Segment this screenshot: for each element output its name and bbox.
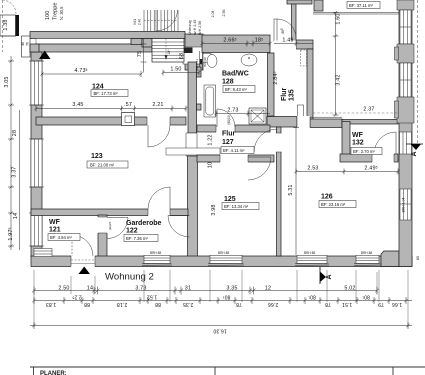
right wall pillar 1	[397, 0, 414, 10]
right window 1	[400, 10, 411, 44]
dim 1.49	[274, 38, 313, 47]
bottom right corner block	[381, 251, 399, 267]
entrance door opening	[71, 256, 95, 268]
svg-text:78: 78	[325, 301, 331, 307]
section marker A bottom	[320, 267, 333, 284]
svg-text:2.08: 2.08	[211, 11, 215, 18]
svg-text:3.05: 3.05	[4, 76, 10, 87]
wall between 124 and 123	[36, 117, 186, 125]
svg-text:1.60: 1.60	[336, 13, 342, 24]
title block top line	[30, 366, 425, 368]
svg-text:2.18: 2.18	[117, 301, 128, 307]
WC toilet	[203, 54, 217, 68]
svg-text:BRH 88: BRH 88	[361, 251, 372, 255]
passage opening 123 to Flur	[186, 133, 198, 156]
svg-text:BF: 21.00 m²: BF: 21.00 m²	[90, 162, 115, 167]
svg-text:BF: 4.94 m²: BF: 4.94 m²	[50, 235, 72, 240]
stairwell west wall	[22, 36, 31, 57]
svg-text:1.50: 1.50	[170, 67, 181, 73]
svg-text:3.73: 3.73	[135, 286, 146, 292]
bottom window under 122	[142, 255, 172, 266]
chimney stub on wall	[122, 113, 135, 126]
svg-text:2.53: 2.53	[307, 166, 318, 172]
door arc 121 to 122	[107, 218, 128, 239]
window left 124	[29, 61, 44, 105]
door opening WF132	[372, 154, 394, 163]
svg-text:Flur: Flur	[222, 131, 235, 138]
svg-text:3.42: 3.42	[336, 74, 342, 85]
dim 1.50 stair	[161, 67, 200, 76]
dim 4.73 room 124	[40, 68, 142, 77]
entry step marker top-left triangle	[39, 51, 51, 60]
room 122 label	[124, 220, 162, 242]
wall stub right of corridor door	[296, 40, 313, 49]
washbasin	[241, 54, 257, 66]
dim 1.22 vertical	[208, 134, 214, 145]
svg-text:BF: 13.34 m²: BF: 13.34 m²	[224, 204, 249, 209]
stair lower flight enclosure	[152, 39, 184, 63]
svg-text:.57: .57	[124, 102, 132, 108]
svg-text:BRH 1.04: BRH 1.04	[402, 198, 406, 213]
svg-text:1.83: 1.83	[46, 301, 57, 307]
wall chunk top right	[314, 0, 323, 11]
svg-text:1.52: 1.52	[147, 294, 158, 300]
room 37.11 label	[347, 2, 380, 9]
dim texts row2 below (rotated 180)	[46, 301, 403, 307]
door arc Flur to Bad/WC	[217, 109, 235, 127]
right exterior wall	[399, 0, 412, 267]
room 135 label	[281, 88, 296, 101]
svg-text:78: 78	[236, 301, 242, 307]
svg-text:123: 123	[91, 153, 103, 160]
door opening 123-122	[148, 209, 170, 217]
bottom window under 126 right	[354, 255, 381, 266]
room 125 label	[222, 196, 259, 210]
left dim line outer	[8, 56, 14, 250]
room 127 label	[221, 131, 254, 154]
wall between 122 and 125	[188, 156, 198, 257]
svg-text:WF: WF	[352, 132, 364, 139]
room 128 label	[222, 71, 255, 93]
dim 68 vertical stair door	[179, 53, 185, 59]
wall between 124-123 and Flur127	[188, 62, 197, 133]
corridor east partition lines	[298, 105, 304, 120]
svg-text:2.37: 2.37	[363, 107, 374, 113]
stair label 100 Treppe	[45, 2, 64, 20]
svg-text:1.49: 1.49	[282, 38, 293, 44]
svg-text:BrH 2,56: BrH 2,56	[198, 21, 202, 35]
window left 123	[29, 139, 44, 187]
corridor 135 east wall	[307, 49, 313, 120]
svg-text:BF: 7.36 m²: BF: 7.36 m²	[126, 236, 148, 241]
svg-text:3.45: 3.45	[72, 102, 83, 108]
left exterior wall	[31, 52, 42, 257]
door opening Flur-125	[220, 155, 248, 163]
svg-text:3.35: 3.35	[226, 286, 237, 292]
svg-text:80¹: 80¹	[222, 294, 230, 300]
stair entry door arc	[156, 10, 178, 31]
svg-text:31: 31	[185, 286, 191, 292]
stair upper flight	[144, 10, 178, 32]
dim chain row2 bottom	[32, 297, 412, 304]
svg-text:N: 30,5: N: 30,5	[59, 6, 64, 20]
small wall step above triangle	[30, 44, 39, 52]
lintel marker across passage	[166, 148, 220, 155]
shoe cabinet 121	[34, 249, 52, 257]
door arc into WF132	[374, 132, 396, 154]
svg-text:BF: 17.73 m²: BF: 17.73 m²	[94, 91, 119, 96]
svg-text:BF: 23.16 m²: BF: 23.16 m²	[321, 202, 346, 207]
svg-text:BF: 8.43 m²: BF: 8.43 m²	[225, 87, 247, 92]
room 132 label	[351, 132, 382, 155]
svg-text:Bad/WC: Bad/WC	[222, 71, 249, 78]
pier below top wall	[131, 39, 142, 45]
room 121 label	[48, 219, 80, 241]
dim texts row2 above (rotated 180)	[72, 294, 370, 300]
svg-text:80: 80	[416, 256, 420, 260]
svg-text:79: 79	[378, 301, 384, 307]
svg-text:BrH 2.41: BrH 2.41	[195, 59, 199, 71]
svg-text:28: 28	[12, 130, 18, 136]
dim 1.60 / 3.42 vertical line	[333, 11, 342, 117]
dim 3.98 vertical	[211, 204, 217, 215]
svg-text:80¹: 80¹	[308, 294, 316, 300]
svg-text:A: A	[411, 151, 418, 156]
right wall pillar 2	[397, 44, 414, 63]
room 126 label	[319, 194, 356, 208]
svg-text:132: 132	[352, 140, 364, 147]
svg-text:BrH 90: BrH 90	[203, 57, 207, 67]
strip under top wall	[36, 39, 131, 45]
right window 3	[400, 189, 411, 220]
svg-text:BF: 4.11 m²: BF: 4.11 m²	[223, 148, 245, 153]
right window 2	[400, 63, 411, 97]
corridor 135 west wall	[268, 53, 275, 116]
dashed axis line left	[2, 0, 4, 52]
svg-text:46: 46	[21, 42, 25, 46]
section marker A right	[406, 144, 423, 157]
door arc 123 to 122	[148, 187, 170, 209]
balcony door slot right wall	[400, 132, 412, 154]
svg-text:WF: WF	[49, 219, 61, 226]
window left 121	[29, 213, 44, 246]
shower tray	[249, 108, 266, 124]
BRH labels bottom windows	[150, 251, 372, 255]
svg-text:2.35: 2.35	[183, 301, 194, 307]
svg-text:2.66: 2.66	[268, 301, 279, 307]
svg-text:12: 12	[265, 286, 271, 292]
svg-text:(ak)26: (ak)26	[108, 221, 112, 230]
wall between 125 and 126	[277, 127, 282, 256]
svg-text:uz H 2,45: uz H 2,45	[193, 20, 197, 35]
WF132 top wall	[342, 120, 398, 125]
svg-text:2.50: 2.50	[58, 286, 69, 292]
bottom window under 126 left	[295, 255, 329, 266]
svg-text:Flur: Flur	[281, 88, 288, 101]
bathtub	[204, 85, 216, 117]
WF132 bottom wall	[340, 154, 398, 162]
bottom window under 125	[208, 255, 244, 266]
svg-text:88: 88	[155, 301, 161, 307]
door arc 122 to 125	[168, 216, 190, 238]
wall between 121 and 122	[98, 215, 107, 257]
dim 3.45 57 2.21	[34, 102, 187, 112]
Unterzug notes	[188, 20, 202, 35]
dim texts row1	[58, 286, 355, 292]
door opening 126 north	[297, 116, 310, 128]
dashed boundary right edge	[417, 0, 419, 144]
room 123 label	[87, 153, 128, 168]
svg-text:Unterzug: Unterzug	[188, 20, 192, 35]
dim 2.84 vertical	[273, 71, 279, 84]
door arc corridor to room 37.11	[274, 19, 296, 41]
svg-text:Wohnung 2: Wohnung 2	[105, 272, 154, 283]
door arc 124 to 123	[148, 125, 170, 147]
bottom exterior wall	[31, 256, 412, 267]
svg-text:135: 135	[289, 89, 296, 101]
room 124 label	[91, 84, 128, 97]
dashed line above WF132	[313, 112, 398, 114]
svg-text:128: 128	[222, 79, 234, 86]
door opening corridor top	[274, 41, 296, 50]
wall between 123 and 121/122	[31, 209, 188, 216]
top exterior wall (stairwell side)	[30, 32, 185, 39]
svg-text:3.37: 3.37	[12, 166, 18, 177]
door opening 124-123	[147, 117, 170, 126]
door opening 121-122	[98, 217, 108, 233]
svg-text:100: 100	[45, 11, 51, 20]
svg-text:76: 76	[26, 42, 30, 46]
dashed door swing top-left	[3, 0, 17, 14]
svg-text:68: 68	[179, 53, 185, 59]
svg-text:1.66: 1.66	[392, 301, 403, 307]
svg-text:125: 125	[224, 196, 236, 203]
entrance door arc into 121	[72, 235, 93, 256]
svg-text:1.22: 1.22	[208, 134, 214, 145]
corner block right of stair	[185, 34, 203, 70]
svg-text:2.40: 2.40	[138, 19, 142, 25]
svg-text:BRH 88: BRH 88	[304, 251, 315, 255]
left dim texts	[3, 19, 19, 240]
top-left entry fragment	[0, 15, 19, 36]
apartment door slot from stair	[183, 47, 203, 70]
top wall fragment	[287, 0, 312, 4]
svg-text:126: 126	[321, 194, 333, 201]
svg-text:127: 127	[222, 139, 234, 146]
dim 75 vertical	[137, 39, 147, 73]
right wall pillar 3	[397, 97, 414, 123]
dim 2.53 / 2.49	[294, 165, 399, 174]
svg-text:16.30: 16.30	[213, 328, 227, 334]
partition wall top (room 37.11)	[292, 0, 297, 41]
svg-text:Garderobe: Garderobe	[126, 220, 162, 227]
door arc Flur to 125	[248, 157, 271, 180]
WF132 west wall	[342, 122, 350, 158]
thin top wall room 37.11	[313, 12, 399, 14]
left inner dim line	[19, 110, 21, 250]
wall band 126/37.11	[310, 119, 342, 128]
room 124 top wall	[36, 44, 152, 52]
svg-text:75: 75	[137, 51, 143, 57]
door arc 126 west	[254, 129, 277, 152]
svg-text:10: 10	[208, 162, 214, 168]
svg-text:Treppe: Treppe	[53, 2, 59, 20]
Bad/WC bottom wall	[197, 125, 270, 132]
dim 10 vertical	[208, 162, 214, 168]
entrance marker triangle	[79, 267, 91, 275]
svg-text:18⁵: 18⁵	[167, 49, 171, 55]
dashed shaft in corridor	[301, 50, 307, 66]
door slot 126 west	[276, 133, 282, 152]
svg-text:2.73: 2.73	[227, 108, 238, 114]
dim chain row1 bottom	[32, 287, 379, 295]
wall thickness dims 46 76	[21, 42, 30, 46]
svg-text:14: 14	[13, 213, 19, 219]
dim chain row3 total	[30, 322, 412, 329]
dim 5.31 vertical	[288, 127, 299, 255]
svg-text:5.02: 5.02	[344, 286, 355, 292]
dim 2.37	[363, 107, 374, 113]
svg-text:BF: 37.11 m²: BF: 37.11 m²	[349, 3, 373, 8]
svg-text:14: 14	[87, 286, 93, 292]
svg-text:2.56: 2.56	[222, 10, 226, 17]
svg-text:1.51: 1.51	[342, 301, 353, 307]
dim 2.66 18	[200, 37, 271, 46]
svg-text:1.38: 1.38	[3, 19, 9, 30]
wall under corridor (Flur ext top)	[267, 117, 297, 128]
svg-text:3.61: 3.61	[133, 19, 137, 25]
pilaster blocks in Bad	[197, 67, 202, 77]
svg-text:121: 121	[49, 227, 61, 234]
svg-text:BRH 88: BRH 88	[218, 251, 229, 255]
svg-text:2.21: 2.21	[152, 102, 163, 108]
svg-text:122: 122	[126, 228, 138, 235]
svg-text:(80)19: (80)19	[227, 115, 231, 124]
svg-text:PLANER:: PLANER:	[40, 371, 67, 375]
svg-text:88: 88	[84, 301, 90, 307]
dim 2.73	[214, 108, 270, 117]
wall 125 top (Flur bottom)	[197, 155, 274, 162]
svg-text:5.31: 5.31	[288, 184, 294, 195]
svg-text:3.98: 3.98	[211, 204, 217, 215]
dim extension lines	[34, 270, 408, 327]
title block verticals	[33, 367, 35, 375]
Bad/WC top wall	[202, 35, 270, 53]
svg-text:BRH 88: BRH 88	[150, 251, 161, 255]
svg-text:BF: 3.70 m²: BF: 3.70 m²	[353, 149, 375, 154]
svg-text:80¹: 80¹	[362, 294, 370, 300]
door opening Flur-Bad	[216, 125, 235, 133]
